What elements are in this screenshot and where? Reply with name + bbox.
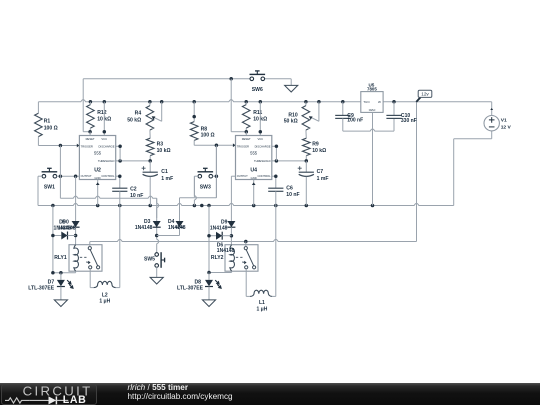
wire: output net drop to D50 bbox=[75, 176, 77, 215]
svg-text:D8: D8 bbox=[194, 279, 201, 285]
svg-text:10 nF: 10 nF bbox=[286, 192, 299, 198]
svg-text:R1: R1 bbox=[44, 119, 51, 125]
svg-text:1 μH: 1 μH bbox=[256, 306, 267, 312]
svg-text:OUT: OUT bbox=[363, 100, 370, 104]
svg-text:1N4148: 1N4148 bbox=[58, 225, 76, 231]
wire: main ground rail y=205.5 bbox=[37, 176, 39, 205]
svg-text:THRESHOLD: THRESHOLD bbox=[254, 159, 271, 163]
svg-text:SW6: SW6 bbox=[252, 87, 263, 93]
wire: SW6 net left drop x=83.2 bbox=[82, 79, 84, 132]
capacitor C2 bbox=[112, 187, 127, 189]
pushbutton SW6 bbox=[250, 77, 254, 81]
ground (D8) bbox=[202, 300, 215, 307]
svg-text:R11: R11 bbox=[253, 110, 262, 116]
capacitor C1 (polarized) bbox=[149, 161, 151, 172]
svg-text:RESET: RESET bbox=[86, 137, 95, 141]
wire: ground rail drop to D6 line x=209 bbox=[208, 206, 210, 273]
wire: SW1 left to ground rail bbox=[38, 175, 42, 177]
wire: discharge jog U4 bbox=[272, 145, 277, 147]
ground (SW6) bbox=[285, 85, 298, 92]
wire: VCC pin U4 bbox=[259, 102, 261, 136]
R10 wiper bbox=[318, 102, 320, 122]
svg-text:100 nF: 100 nF bbox=[347, 118, 363, 124]
resistor R3 bbox=[149, 130, 151, 138]
wire: SW3 right to trigger vertical bbox=[213, 175, 217, 177]
svg-text:SW5: SW5 bbox=[144, 256, 155, 262]
resistor R9 bbox=[305, 130, 307, 138]
wire: C6 down to L1 (ground net) bbox=[275, 191, 277, 296]
wire: SW6 top line y=78 bbox=[83, 78, 250, 80]
wire: C7 to ground rail bbox=[305, 177, 307, 206]
capacitor C7 (polarized) bbox=[305, 161, 307, 172]
svg-text:12v: 12v bbox=[421, 92, 429, 97]
wire: SW6 net right drop x=231.2 bbox=[230, 79, 232, 132]
wire: threshold line U4 bbox=[272, 160, 307, 162]
resistor R1 bbox=[37, 102, 39, 113]
wire: U2 GND pin to ground rail bbox=[97, 180, 99, 206]
wire: C9 bottom to C10 bottom (hops U5 GND) bbox=[342, 118, 344, 131]
svg-text:R3: R3 bbox=[157, 142, 164, 148]
svg-text:10 nF: 10 nF bbox=[130, 193, 143, 199]
svg-text:330 nF: 330 nF bbox=[401, 118, 417, 124]
inductor L1 bbox=[250, 290, 272, 296]
svg-text:L1: L1 bbox=[259, 300, 265, 306]
wire: C2 down to L2 (ground net) bbox=[119, 191, 121, 287]
wire: RLY1 common to +12V rail bbox=[89, 242, 91, 245]
diode D1 1N4148 (horizontal) bbox=[53, 235, 61, 237]
svg-text:VCC: VCC bbox=[101, 137, 107, 141]
svg-text:1 mF: 1 mF bbox=[161, 176, 173, 182]
wire: control pin to C2 bbox=[116, 175, 120, 177]
svg-text:TRIGGER: TRIGGER bbox=[237, 144, 249, 148]
inductor L2 bbox=[94, 281, 116, 287]
svg-text:GND: GND bbox=[95, 176, 101, 180]
svg-text:IN: IN bbox=[378, 100, 381, 104]
svg-text:C1: C1 bbox=[161, 169, 168, 175]
voltage source V1 12V bbox=[484, 116, 499, 131]
capacitor C6 bbox=[268, 187, 283, 189]
wire: ground rail drop to diode line x=52.9 bbox=[52, 206, 54, 273]
diode D3 1N4148 bbox=[153, 221, 161, 227]
potentiometer R10 bbox=[305, 102, 307, 106]
relay RLY1 bbox=[69, 245, 102, 272]
R4 wiper bbox=[161, 102, 163, 122]
wire: U4 GND pin to ground rail bbox=[253, 180, 255, 206]
svg-text:7805: 7805 bbox=[367, 87, 377, 92]
svg-text:1N4148: 1N4148 bbox=[135, 225, 153, 231]
wire: RLY2 common up to rail bbox=[245, 242, 247, 245]
wire: SW3 left to ground rail bbox=[194, 175, 198, 177]
555 chip U2 bbox=[79, 136, 115, 180]
wire: main VCC bus y=101.8 (hops over x=83.2 and x=231.2) bbox=[38, 100, 360, 102]
svg-text:LTL-307EE: LTL-307EE bbox=[177, 286, 204, 292]
wire: RLY2 throw to L1 bbox=[245, 271, 247, 296]
svg-text:RESET: RESET bbox=[242, 137, 251, 141]
wire: U5 GND to ground rail bbox=[372, 112, 374, 205]
svg-text:DISCHARGE: DISCHARGE bbox=[99, 144, 115, 148]
svg-text:1N4148: 1N4148 bbox=[210, 225, 228, 231]
svg-text:50 kΩ: 50 kΩ bbox=[127, 117, 141, 123]
diode D6 1N4148 (horizontal) bbox=[209, 235, 216, 237]
wire: RLY2 coil bottom to LED line bbox=[231, 271, 233, 272]
wire: RLY1 coil bottom to LED line bbox=[75, 271, 77, 273]
svg-text:OUTPUT: OUTPUT bbox=[237, 174, 248, 178]
voltage regulator U5 7805 bbox=[361, 92, 383, 113]
svg-text:100 Ω: 100 Ω bbox=[44, 126, 58, 132]
svg-text:LAB: LAB bbox=[63, 394, 87, 405]
svg-text:RLY1: RLY1 bbox=[54, 255, 67, 261]
svg-text:CONTROL: CONTROL bbox=[101, 174, 115, 178]
svg-text:555: 555 bbox=[250, 151, 258, 156]
svg-text:100 Ω: 100 Ω bbox=[201, 132, 215, 138]
wire: trigger-net run to SW5 column bbox=[156, 198, 158, 218]
wire: C1 to ground rail bbox=[149, 177, 151, 206]
capacitor C10 bbox=[393, 102, 395, 116]
resistor R8 bbox=[193, 102, 195, 122]
LED D7 LTL-307EE bbox=[60, 273, 62, 280]
wire: threshold line U2 bbox=[116, 160, 151, 162]
svg-text:V1: V1 bbox=[501, 118, 507, 124]
resistor R11 bbox=[245, 102, 247, 105]
svg-text:OUTPUT: OUTPUT bbox=[81, 174, 92, 178]
svg-text:1N4148: 1N4148 bbox=[168, 225, 186, 231]
svg-text:R4: R4 bbox=[135, 110, 142, 116]
555 chip U4 bbox=[236, 136, 272, 180]
potentiometer R4 bbox=[149, 102, 151, 106]
wire: SW1 right / output line U2 bbox=[57, 175, 80, 177]
net flag 12v bbox=[416, 97, 420, 102]
wire: discharge jog U2 bbox=[116, 145, 120, 147]
svg-text:R12: R12 bbox=[97, 110, 107, 116]
wire: relay common rail y=241.5 bbox=[90, 239, 417, 241]
wire: VCC pin U2 bbox=[103, 102, 105, 136]
svg-text:GND: GND bbox=[368, 108, 376, 112]
svg-text:U4: U4 bbox=[250, 168, 257, 174]
node: SW6 junction dot bbox=[229, 77, 233, 81]
svg-text:GND: GND bbox=[251, 176, 257, 180]
svg-text:CONTROL: CONTROL bbox=[257, 174, 271, 178]
diode D9 1N4148 bbox=[230, 215, 232, 221]
ground (D7) bbox=[54, 300, 67, 307]
wire: control pin to C6 bbox=[272, 175, 276, 177]
wire: U4 output to D9 bbox=[231, 175, 235, 177]
svg-text:1 μH: 1 μH bbox=[99, 299, 110, 305]
svg-text:LTL-307EE: LTL-307EE bbox=[28, 286, 55, 292]
svg-text:C2: C2 bbox=[130, 186, 137, 192]
svg-text:1 mF: 1 mF bbox=[317, 176, 329, 182]
svg-text:10 kΩ: 10 kΩ bbox=[157, 148, 171, 154]
LED D8 LTL-307EE bbox=[208, 273, 210, 280]
svg-text:D7: D7 bbox=[48, 279, 55, 285]
diode D50 1N4148 bbox=[75, 215, 77, 221]
pushbutton SW3 bbox=[198, 174, 202, 178]
pushbutton SW1 bbox=[42, 174, 46, 178]
svg-text:12 V: 12 V bbox=[501, 125, 512, 131]
wire: trigger net vertical + y=198.3 run bbox=[59, 146, 61, 199]
pushbutton SW5 bbox=[155, 253, 159, 257]
ground (SW5) bbox=[150, 277, 163, 284]
wire: RLY1 throw to L2 bbox=[89, 271, 91, 287]
svg-text:R9: R9 bbox=[312, 142, 319, 148]
capacitor C9 bbox=[342, 102, 344, 116]
svg-text:1N4148: 1N4148 bbox=[217, 248, 235, 254]
svg-text:U2: U2 bbox=[94, 168, 101, 174]
wire: trigger line U4 bbox=[194, 144, 235, 146]
svg-text:DISCHARGE: DISCHARGE bbox=[255, 144, 271, 148]
wire: right trigger net via D4 bbox=[215, 145, 217, 198]
relay RLY2 bbox=[225, 245, 258, 272]
svg-text:10 kΩ: 10 kΩ bbox=[312, 148, 326, 154]
svg-text:VCC: VCC bbox=[257, 137, 263, 141]
resistor R12 bbox=[89, 102, 91, 105]
svg-text:555: 555 bbox=[94, 151, 102, 156]
svg-text:50 kΩ: 50 kΩ bbox=[284, 118, 298, 124]
wire: trigger line U2 bbox=[38, 145, 79, 147]
svg-text:SW1: SW1 bbox=[44, 185, 55, 191]
svg-text:C7: C7 bbox=[317, 169, 324, 175]
diode D4 1N4148 bbox=[176, 221, 184, 227]
wire: ground rail to V1 negative bbox=[453, 139, 455, 206]
svg-text:TRIGGER: TRIGGER bbox=[81, 144, 93, 148]
svg-text:SW3: SW3 bbox=[200, 185, 211, 191]
svg-text:THRESHOLD: THRESHOLD bbox=[98, 159, 115, 163]
svg-text:RLY2: RLY2 bbox=[211, 255, 224, 261]
svg-text:C6: C6 bbox=[286, 185, 293, 191]
